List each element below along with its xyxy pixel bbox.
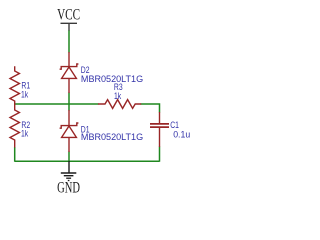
resistor R1 [10, 66, 19, 104]
wire ground rail [15, 160, 160, 162]
svg-text:1k: 1k [21, 89, 29, 99]
wire D1 to ground rail [68, 152, 70, 162]
svg-text:0.1u: 0.1u [173, 129, 190, 139]
resistor R3 [98, 100, 141, 109]
svg-text:MBR0520LT1G: MBR0520LT1G [81, 132, 143, 142]
capacitor C1 [150, 112, 169, 147]
diode D2 [60, 52, 79, 93]
wire VCC to D2 [68, 31, 70, 53]
ground [61, 161, 77, 181]
diode D1 [60, 110, 79, 152]
wire mid rail left (node) [15, 103, 99, 105]
wire C1 to ground rail [159, 147, 161, 162]
wire R2 to ground rail [14, 147, 16, 162]
svg-text:1k: 1k [21, 128, 29, 138]
power symbol VCC [61, 23, 78, 31]
svg-text:MBR0520LT1G: MBR0520LT1G [81, 74, 143, 84]
svg-text:GND: GND [57, 178, 80, 196]
svg-text:VCC: VCC [57, 6, 80, 23]
wire D2 to mid node [68, 93, 70, 105]
svg-text:1k: 1k [114, 91, 122, 101]
wire mid node to D1 [68, 104, 70, 111]
resistor R2 [10, 104, 19, 148]
wire mid rail right to C1 corner [141, 104, 160, 113]
